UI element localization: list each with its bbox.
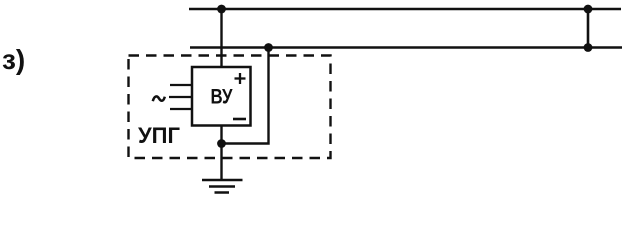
junction dot: rail 1 right — [584, 5, 593, 14]
junction dot: output node — [217, 139, 226, 148]
wire: input stub 1 — [170, 84, 192, 86]
wire: from rail 1 down to ВУ top (crosses rail 2) — [220, 9, 222, 68]
svg-text:УПГ: УПГ — [138, 123, 180, 148]
svg-text:ВУ: ВУ — [211, 86, 234, 109]
ground symbol — [202, 180, 243, 193]
wire: right vertical connector between rails — [587, 9, 590, 48]
pin label − (minus terminal) — [233, 118, 246, 121]
dashed enclosure УПГ — [129, 56, 331, 159]
pin label + (plus terminal) — [235, 73, 246, 84]
junction dot: rail 1 at node A — [217, 5, 226, 14]
AC source symbol ~ — [153, 96, 165, 101]
wire: bus rail 2 — [190, 46, 622, 49]
wire: feedback from rail 2 down and left to output node — [222, 48, 269, 144]
amplifier block ВУ — [192, 67, 251, 126]
wire: ВУ bottom to ground — [220, 126, 222, 181]
wire: top bus rail 1 — [189, 8, 621, 11]
svg-text:з): з) — [2, 44, 25, 75]
junction dot: rail 2 at node B — [264, 43, 273, 52]
wire: input stub 2 — [169, 96, 192, 98]
wire: input stub 3 — [170, 108, 192, 110]
junction dot: rail 2 right — [584, 43, 593, 52]
